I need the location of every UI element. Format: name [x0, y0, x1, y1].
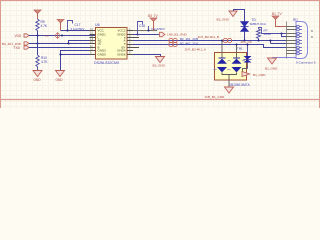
sheet border top: [0, 0, 320, 2]
junction gnd pins: [59, 53, 61, 55]
svg-text:1N7_B2-4K1_B: 1N7_B2-4K1_B: [198, 35, 220, 39]
wire VCC row to U8: [61, 30, 96, 32]
svg-text:B3_GND: B3_GND: [153, 64, 166, 68]
GDT box: [215, 47, 251, 87]
no-ERC marker on VDD wire (red circle with bar and oo text): [45, 32, 59, 38]
svg-text:1N5_B1_GND: 1N5_B1_GND: [205, 95, 226, 99]
svg-text:9 Connector 9: 9 Connector 9: [296, 60, 316, 64]
fuse F2 on wire A: [169, 42, 177, 46]
wire TXD to U8: [29, 47, 96, 49]
svg-text:B3_GND: B3_GND: [217, 17, 230, 21]
svg-text:VDD: VDD: [15, 34, 22, 38]
junction GDT pin1: [221, 39, 223, 41]
junction wireB/pin6: [269, 39, 271, 41]
junction B2 wire / R chain: [36, 42, 38, 44]
svg-text:B2_4K1_2CB: B2_4K1_2CB: [180, 37, 198, 41]
svg-text:GND6: GND6: [117, 53, 126, 57]
power B1_7V: [272, 12, 287, 27]
power symbol VCC at C17: [57, 20, 64, 31]
U8 pins left: [90, 31, 96, 55]
svg-text:B2_4K1_2CA: B2_4K1_2CA: [180, 41, 198, 45]
svg-text:B1_GND: B1_GND: [265, 66, 278, 70]
port 1N5_B3_GND: [160, 32, 188, 36]
ground B3_GND right of U8: [153, 57, 166, 68]
junction C18 right: [147, 29, 149, 31]
svg-text:GND5: GND5: [98, 53, 107, 57]
junction R bottom: [257, 39, 259, 41]
U8 pin names: [98, 29, 126, 57]
junction C17: [66, 29, 68, 31]
svg-text:4K1_OK: 4K1_OK: [241, 40, 252, 44]
junction pin3 wire: [280, 32, 282, 34]
junction TVS2 top: [246, 43, 248, 45]
sheet border left: [0, 0, 2, 108]
port B2_4K1_2CB: [2, 42, 29, 46]
GDT pins from wires: [222, 41, 237, 59]
svg-text:B: B: [311, 35, 313, 39]
wire U8 VCC right to B3_7V: [133, 30, 157, 32]
svg-text:A: A: [246, 65, 248, 69]
TVS2 bidirectional: [243, 45, 252, 74]
svg-text:DS26LS32CMX: DS26LS32CMX: [94, 61, 120, 65]
wire B (U8 pin4) to connector: [133, 40, 287, 42]
sheet border bottom: [0, 99, 320, 101]
ground arrow under R10: [33, 71, 42, 82]
resistor R10: [36, 55, 49, 71]
wire into connector pin6: [271, 41, 287, 44]
wire pin3 to pin4: [282, 34, 287, 37]
wire U8 pin8 to B3_GND: [133, 55, 161, 57]
terminator resistor R 120R: [257, 28, 287, 41]
connector contacts: [297, 25, 302, 55]
wire VDD to U8: [29, 35, 96, 37]
svg-text:0.1uF/50V: 0.1uF/50V: [151, 27, 165, 31]
IC U8 DS26LS32CMX body: [94, 23, 127, 65]
capacitor C17: [68, 21, 85, 32]
wire U8 pin2 to port: [133, 34, 162, 36]
ground B3_GND above TVS: [217, 10, 245, 22]
connector JB1 body: [287, 18, 316, 65]
svg-text:SMBJ7.0CA: SMBJ7.0CA: [250, 22, 266, 26]
wire U8 gnd pins to gnd: [61, 51, 96, 71]
svg-text:4.7K: 4.7K: [41, 60, 48, 64]
svg-text:B1_7V: B1_7V: [272, 12, 282, 16]
sheet background: [0, 0, 320, 108]
svg-text:120R: 120R: [264, 32, 272, 36]
svg-text:TXD: TXD: [14, 46, 21, 50]
ground arrow left of U8: [56, 71, 65, 82]
junction VDD mid: [61, 34, 63, 36]
svg-text:GB1050-5M7A: GB1050-5M7A: [229, 83, 251, 87]
junction B2 wire split: [67, 42, 69, 44]
ground B1_GND below connector: [265, 58, 278, 70]
svg-text:C18: C18: [139, 24, 145, 28]
junction TVS on wire B: [243, 39, 245, 41]
svg-text:TM1: TM1: [237, 47, 243, 51]
wire R9 chain down to R10: [37, 36, 39, 56]
junction GDT pin2: [235, 43, 237, 45]
svg-text:B1_GND: B1_GND: [253, 73, 266, 77]
svg-text:oo: oo: [45, 34, 49, 38]
svg-text:U8: U8: [95, 23, 100, 27]
svg-text:JB1: JB1: [293, 18, 299, 22]
svg-text:GND: GND: [34, 78, 42, 82]
U8 pin numbers: [90, 27, 131, 55]
connector side labels: [311, 29, 313, 39]
junction VDD/R9: [36, 34, 38, 36]
connector pins: [287, 27, 297, 54]
port TXD: [14, 46, 30, 50]
svg-text:1N7_B2-4K1_A: 1N7_B2-4K1_A: [185, 47, 207, 51]
power port B1_GND right arrow: [242, 72, 266, 78]
svg-text:1N5_B3_GND: 1N5_B3_GND: [167, 32, 188, 36]
power VCC top-left: [34, 10, 41, 19]
svg-text:0.1uF/50V: 0.1uF/50V: [71, 27, 85, 31]
junction C18 left: [136, 33, 138, 35]
svg-text:4.7K: 4.7K: [41, 24, 48, 28]
wire R9 bottom to VDD net: [37, 31, 39, 36]
wire B2_4K1_2CB: [29, 41, 96, 44]
svg-text:B3_7V: B3_7V: [148, 14, 158, 18]
sheet border right: [319, 0, 320, 108]
svg-text:GND: GND: [56, 78, 64, 82]
TVS diode TD: [241, 18, 266, 41]
wire connector bottom to B1_GND: [273, 57, 297, 60]
fuse F3 on wire B right: [223, 38, 231, 42]
port VDD: [15, 34, 30, 38]
U8 pins right: [127, 31, 139, 55]
svg-text:B: B: [311, 29, 313, 33]
capacitor C18: [138, 22, 165, 35]
GDT internal electrodes: [214, 58, 246, 87]
fuse F1 on wire B: [169, 38, 177, 42]
wire A (U8 pin5) with step down: [133, 45, 287, 48]
power B3_7V: [148, 14, 158, 31]
resistor R9: [36, 19, 48, 31]
ground 1N5_B1_GND: [205, 87, 234, 99]
